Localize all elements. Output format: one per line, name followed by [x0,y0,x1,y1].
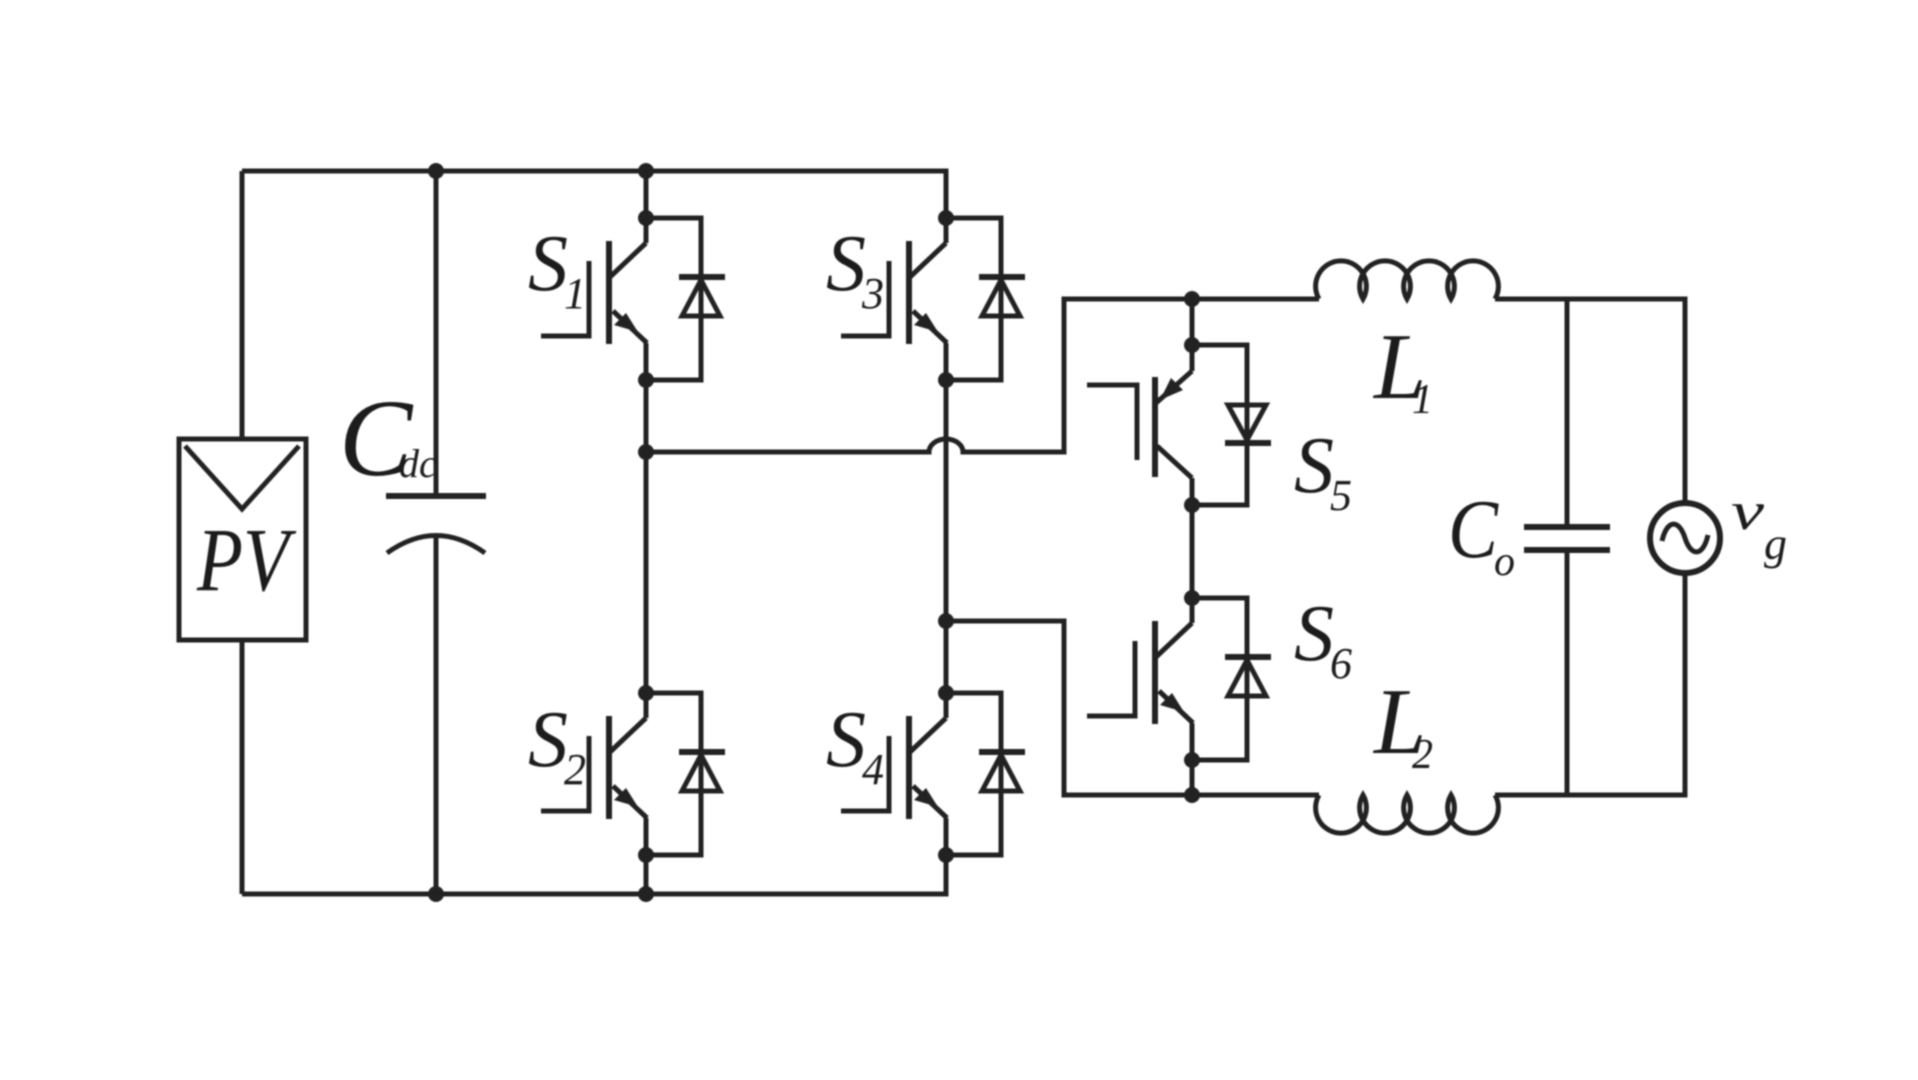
svg-text:S: S [826,696,866,784]
svg-text:2: 2 [1412,732,1433,778]
svg-text:dc: dc [399,441,437,486]
svg-text:S: S [826,220,866,308]
svg-text:S: S [528,220,568,308]
svg-text:S: S [1294,590,1334,678]
svg-text:4: 4 [862,745,884,794]
svg-text:1: 1 [564,269,586,318]
svg-text:v: v [1731,481,1764,541]
svg-text:3: 3 [861,269,884,318]
svg-text:1: 1 [1412,377,1433,423]
svg-text:S: S [1294,422,1334,510]
svg-text:PV: PV [196,511,296,610]
svg-text:C: C [1448,483,1499,576]
svg-text:g: g [1764,518,1787,569]
svg-text:S: S [528,696,568,784]
svg-text:2: 2 [564,745,586,794]
svg-text:o: o [1494,539,1515,585]
svg-text:5: 5 [1330,471,1352,520]
svg-text:6: 6 [1330,639,1352,688]
